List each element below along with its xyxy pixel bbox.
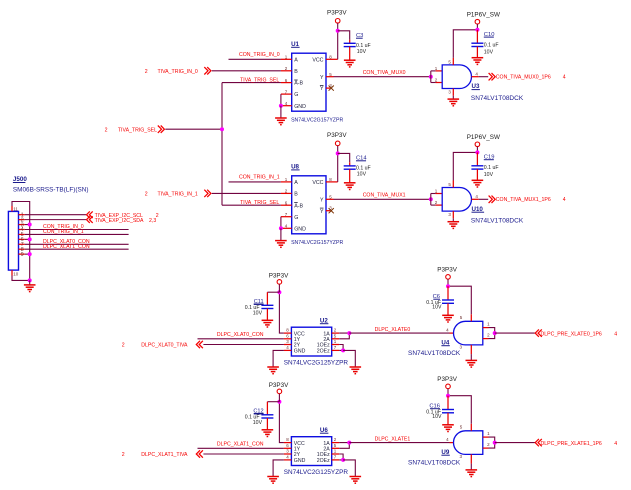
U1 pin 3 (Y-bar) no connect: [326, 87, 330, 89]
svg-text:DLPC_XLAT1_TIVA: DLPC_XLAT1_TIVA: [141, 452, 188, 458]
wire P1P6V_SW down: [476, 147, 478, 153]
junction: [279, 104, 283, 108]
svg-text:CON_TIVA_MUX1_1P6: CON_TIVA_MUX1_1P6: [496, 197, 551, 203]
junction: [475, 28, 479, 32]
svg-text:SN74LVC2G157YZPR: SN74LVC2G157YZPR: [291, 118, 343, 124]
svg-text:4: 4: [614, 441, 617, 447]
connector J500: [8, 211, 18, 270]
U8 pin 2 (B): [281, 192, 292, 194]
wire U8 G to GND: [280, 217, 282, 229]
U6 pin 3 (2Y): [284, 453, 292, 455]
power symbol P3P3V: [335, 19, 340, 24]
J500 pin 11: [11, 206, 13, 211]
svg-text:11: 11: [13, 206, 18, 211]
svg-text:P1P6V_SW: P1P6V_SW: [467, 134, 500, 141]
svg-text:DLPC_XLAT1_CON: DLPC_XLAT1_CON: [43, 244, 90, 250]
svg-text:Y: Y: [320, 197, 324, 203]
junction: [220, 127, 224, 131]
ground under C14: [344, 182, 356, 184]
junction: [28, 223, 32, 227]
ground under U1: [275, 117, 287, 119]
power symbol P3P3V: [335, 141, 340, 146]
wire TIVA_TRIG_SEL to U8 pin 6: [222, 204, 281, 206]
capacitor C14: [344, 165, 356, 167]
wire C16 to ground: [447, 413, 449, 425]
wire U9 output to off-page: [495, 442, 535, 444]
ground under C3: [344, 59, 356, 61]
J500 pin 10: [11, 270, 13, 275]
no-connect X: [329, 208, 334, 213]
wire U8 GND to ground: [280, 228, 282, 240]
wire J500 pin 8 net DLPC_XLAT1_CON: [25, 248, 129, 250]
svg-text:G: G: [294, 92, 298, 98]
U3 pin 2: [436, 82, 443, 84]
wire TIVA_TRIG_SEL vertical bus: [221, 83, 223, 206]
svg-text:SN74LV1T08DCK: SN74LV1T08DCK: [471, 218, 524, 225]
wire U3 output: [479, 76, 489, 78]
wire to capacitor C10: [476, 30, 478, 43]
U1 pin 7 (G): [281, 93, 292, 95]
off-page connector TIVA_EXP_I2C_SCL: [87, 211, 93, 218]
U9 pin 4 (output): [450, 442, 454, 444]
U4 pin 2: [483, 338, 489, 340]
wire J500 pin 2 to off-page: [25, 219, 86, 221]
svg-text:DLPC_PRE_XLATE1_1P6: DLPC_PRE_XLATE1_1P6: [541, 441, 602, 447]
junction: [28, 252, 32, 256]
wire U9 pins 1,2 tie: [489, 437, 495, 448]
junction: [277, 400, 281, 404]
wire P3P3V down: [447, 279, 449, 286]
svg-text:DLPC_XLATE1: DLPC_XLATE1: [375, 437, 411, 443]
ground under C6: [442, 314, 454, 316]
J500 pin 1: [19, 214, 25, 216]
junction: [446, 284, 450, 288]
buffer U2: [291, 327, 331, 356]
svg-text:A: A: [294, 57, 298, 63]
svg-text:CON_TRIG_IN_1: CON_TRIG_IN_1: [239, 174, 280, 180]
U2 pin 5 (2A): [332, 338, 340, 340]
U8 pin 1 (A): [281, 181, 292, 183]
wire to capacitor C19: [476, 152, 478, 165]
off-page connector CON_TIVA_MUX1_1P6: [489, 196, 496, 203]
wire J500 pin 5 net CON_TRIG_IN_1: [25, 233, 129, 235]
wire C14 to ground: [349, 169, 351, 183]
svg-text:DLPC_XLAT0_TIVA: DLPC_XLAT0_TIVA: [141, 343, 188, 349]
U1 pin 2 (B): [281, 70, 292, 72]
U6 pin 5 (2A): [332, 447, 340, 449]
J500 pin 8: [19, 248, 25, 250]
ground under J500: [24, 284, 36, 286]
AND gate U10: [442, 188, 471, 212]
svg-text:SN74LV1T08DCK: SN74LV1T08DCK: [471, 95, 524, 102]
svg-text:P1P6V_SW: P1P6V_SW: [467, 11, 500, 18]
U4 pin 1: [483, 327, 489, 329]
wire P3P3V to U2 VCC: [279, 292, 284, 333]
J500 pin 5: [19, 233, 25, 235]
wire J500 pin 9 to ground bus: [25, 253, 30, 255]
no-connect X: [329, 86, 334, 91]
svg-text:TIVA_TRIG_SEL: TIVA_TRIG_SEL: [118, 127, 157, 133]
svg-text:TIVA_TRIG_SEL: TIVA_TRIG_SEL: [240, 77, 279, 83]
svg-text:4: 4: [563, 197, 566, 203]
svg-text:A-B: A-B: [294, 203, 303, 209]
wire P3P3V down: [278, 394, 280, 402]
U3 pin 4 (output): [472, 76, 479, 78]
wire DLPC_XLATE0: [349, 332, 449, 334]
U6 pin 4 (GND): [284, 459, 292, 461]
wire U10 pin 3 to ground: [452, 218, 454, 221]
power symbol P3P3V: [277, 280, 282, 285]
junction: [28, 237, 32, 241]
off-page connector DLPC_PRE_XLATE1_1P6: [535, 439, 542, 446]
junction: [493, 331, 497, 335]
mux U8: [292, 176, 326, 234]
U2 pin 2 (1A): [332, 332, 340, 334]
U4 pin 5 (VCC): [470, 314, 472, 321]
ground under C11: [262, 319, 274, 321]
svg-text:CON_TIVA_MUX1: CON_TIVA_MUX1: [363, 193, 406, 199]
U9 pin 3 (GND): [470, 454, 472, 463]
svg-text:Y: Y: [320, 86, 324, 92]
svg-text:TIVA_EXP_I2C_SDA: TIVA_EXP_I2C_SDA: [95, 218, 144, 224]
wire OEz to ground: [343, 350, 355, 367]
wire to U3 pins 1,2: [430, 71, 432, 83]
off-page connector DLPC_PRE_XLATE0_1P6: [535, 329, 542, 336]
wire CON_TIVA_MUX1 from U8 Y to gate: [334, 198, 431, 200]
U6 pin 1 (1OEz): [332, 453, 340, 455]
svg-text:10V: 10V: [357, 172, 367, 178]
ground under U4: [466, 359, 478, 361]
svg-text:SN74LVC2G125YZPR: SN74LVC2G125YZPR: [284, 360, 349, 367]
wire J500 pin 3 to ground bus: [25, 224, 30, 226]
wire to capacitor C3: [338, 31, 350, 40]
wire U6 1OEz to 2OEz: [339, 454, 343, 460]
wire DLPC_XLAT1_CON to U6 1Y: [198, 447, 284, 449]
wire U10 output: [479, 198, 489, 200]
U1 pin 4 (GND): [281, 105, 292, 107]
wire pin 10 to bus: [12, 276, 30, 281]
U10 pin 1: [436, 193, 443, 195]
wire U4 pin 3 to ground: [470, 354, 472, 360]
U9 pin 5 (VCC): [470, 424, 472, 431]
U8 pin 6 (A/B select): [281, 204, 292, 206]
svg-text:Y: Y: [320, 209, 324, 215]
wire U2 GND to ground: [273, 350, 284, 367]
wire P1P6V_SW to U3 pin 5: [453, 30, 477, 58]
wire to capacitor C14: [338, 153, 350, 162]
svg-text:P3P3V: P3P3V: [269, 382, 289, 389]
ground under U9: [466, 469, 478, 471]
capacitor C6: [442, 299, 454, 301]
wire P1P6V_SW down: [476, 24, 478, 30]
wire U4 pins 1,2 tie: [489, 328, 495, 339]
junction: [493, 441, 497, 445]
U8 pin 5 (Y): [326, 198, 334, 200]
off-page connector CON_TIVA_MUX0_1P6: [489, 73, 496, 80]
wire C10 to ground: [476, 47, 478, 58]
off-page connector TIVA_EXP_I2C_SDA: [87, 216, 93, 223]
ground under C19: [472, 179, 484, 181]
U8 pin 7 (G): [281, 216, 292, 218]
svg-text:SN74LV1T08DCK: SN74LV1T08DCK: [408, 460, 461, 467]
junction: [279, 226, 283, 230]
wire DLPC_XLAT0_TIVA to U2 2Y: [203, 344, 284, 346]
ground under U2: [267, 366, 279, 368]
U2 pin 4 (GND): [284, 349, 292, 351]
U10 pin 2: [436, 204, 443, 206]
U10 pin 3 (GND): [452, 211, 454, 218]
svg-text:A-B: A-B: [294, 81, 303, 87]
svg-text:4: 4: [614, 331, 617, 337]
wire U3 pin 3 to ground: [452, 96, 454, 99]
wire C12 to ground: [266, 418, 268, 430]
J500 pin 7: [19, 243, 25, 245]
svg-text:P3P3V: P3P3V: [437, 376, 457, 383]
U3 pin 1: [436, 70, 443, 72]
svg-text:GND: GND: [294, 104, 306, 110]
wire P3P3V to U8 VCC: [337, 146, 339, 182]
power symbol P3P3V: [446, 384, 451, 389]
svg-text:DLPC_XLAT1_CON: DLPC_XLAT1_CON: [217, 442, 264, 448]
wire TIVA_TRIG_IN_1 to U8 pin B: [212, 192, 281, 194]
mux U1: [292, 53, 326, 111]
U8 pin 4 (GND): [281, 227, 292, 229]
wire to capacitor C6: [447, 286, 449, 300]
U10 pin 4 (output): [472, 198, 479, 200]
svg-text:B: B: [294, 192, 298, 198]
wire U4 output to off-page: [495, 332, 535, 334]
junction: [347, 441, 351, 445]
U4 pin 4 (output): [450, 332, 454, 334]
svg-text:SN74LVC2G157YZPR: SN74LVC2G157YZPR: [291, 240, 343, 246]
U8 pin 8 (VCC): [326, 181, 338, 183]
svg-text:10V: 10V: [484, 172, 494, 178]
wire OEz to ground: [343, 460, 355, 477]
svg-text:CON_TRIG_IN_1: CON_TRIG_IN_1: [43, 229, 84, 235]
junction: [446, 394, 450, 398]
ground under U6: [267, 476, 279, 478]
U1 pin 1 (A): [281, 58, 292, 60]
U6 pin 2 (1A): [332, 442, 340, 444]
wire J500 pin 6 to ground bus: [25, 238, 30, 240]
wire P3P3V to U1 VCC: [337, 23, 339, 59]
junction: [336, 29, 340, 33]
ground under U3: [448, 98, 460, 100]
U1 pin 5 (Y): [326, 76, 334, 78]
capacitor C16: [442, 409, 454, 411]
wire U6 GND to ground: [273, 460, 284, 477]
svg-text:2: 2: [145, 69, 148, 75]
junction: [341, 348, 345, 352]
junction: [336, 151, 340, 155]
ground under C16: [442, 424, 454, 426]
junction: [347, 331, 351, 335]
svg-text:10V: 10V: [357, 49, 367, 55]
svg-text:10V: 10V: [484, 49, 494, 55]
wire to capacitor C16: [447, 396, 449, 410]
svg-text:VCC: VCC: [312, 180, 323, 186]
svg-text:2OEz: 2OEz: [317, 458, 330, 464]
svg-text:G: G: [294, 215, 298, 221]
svg-text:DLPC_XLATE0: DLPC_XLATE0: [375, 327, 411, 333]
svg-text:0.1 uF: 0.1 uF: [484, 165, 499, 171]
wire U1 G to GND: [280, 94, 282, 106]
wire P3P3V to U9 pin 5: [448, 396, 471, 424]
wire DLPC_XLAT0_CON to U2 1Y: [198, 338, 284, 340]
svg-text:DLPC_XLAT0_CON: DLPC_XLAT0_CON: [217, 332, 264, 338]
wire P3P3V to U6 VCC: [279, 402, 284, 443]
svg-text:A: A: [294, 180, 298, 186]
wire TIVA_TRIG_SEL horizontal: [165, 128, 222, 130]
wire to capacitor C11: [267, 291, 279, 293]
wire U2 1A to 2A: [339, 333, 349, 339]
wire U9 pin 3 to ground: [470, 464, 472, 470]
svg-text:P3P3V: P3P3V: [327, 132, 347, 139]
buffer U6: [291, 437, 331, 466]
svg-text:2: 2: [122, 452, 125, 458]
U4 pin 3 (GND): [470, 345, 472, 354]
wire P1P6V_SW to U10 pin 5: [453, 152, 477, 180]
capacitor C12: [261, 414, 273, 416]
U3 pin 3 (GND): [452, 89, 454, 96]
J500 pin 6: [19, 238, 25, 240]
U2 pin 1 (1OEz): [332, 344, 340, 346]
svg-text:DLPC_PRE_XLATE0_1P6: DLPC_PRE_XLATE0_1P6: [541, 331, 602, 337]
ground under U8: [275, 240, 287, 242]
capacitor C3: [344, 42, 356, 44]
svg-text:SM06B-SRSS-TB(LF)(SN): SM06B-SRSS-TB(LF)(SN): [13, 187, 89, 194]
junction at U3 inputs: [429, 75, 433, 79]
junction: [277, 290, 281, 294]
svg-text:SN74LV1T08DCK: SN74LV1T08DCK: [408, 350, 461, 357]
U6 pin 6 (1Y): [284, 447, 292, 449]
junction at U10 inputs: [429, 197, 433, 201]
wire TIVA_TRIG_IN_0 to U1 pin B: [212, 70, 281, 72]
ground under C12: [262, 429, 274, 431]
wire pin 11 to bus: [12, 202, 30, 281]
capacitor C11: [261, 304, 273, 306]
svg-text:GND: GND: [294, 349, 306, 355]
J500 pin 3: [19, 224, 25, 226]
wire DLPC_XLAT1_TIVA to U6 2Y: [203, 453, 284, 455]
svg-text:10: 10: [13, 272, 19, 277]
wire C19 to ground: [476, 169, 478, 180]
power symbol P1P6V_SW: [475, 142, 480, 147]
svg-text:2: 2: [105, 127, 108, 133]
AND gate U3: [442, 65, 471, 89]
svg-text:GND: GND: [294, 226, 306, 232]
wire J500 pin 1 to off-page: [25, 214, 86, 216]
svg-text:CON_TIVA_MUX0: CON_TIVA_MUX0: [363, 70, 406, 76]
power symbol P3P3V: [277, 389, 282, 394]
U9 pin 2: [483, 447, 489, 449]
svg-text:GND: GND: [294, 458, 306, 464]
svg-text:TIVA_TRIG_IN_0: TIVA_TRIG_IN_0: [158, 69, 198, 75]
U3 pin 5 (VCC): [452, 58, 454, 65]
svg-text:2,3: 2,3: [149, 218, 156, 224]
J500 pin 2: [19, 219, 25, 221]
svg-text:10V: 10V: [253, 420, 263, 426]
U1 pin 8 (VCC): [326, 58, 338, 60]
U1 pin 6 (A/B select): [281, 82, 292, 84]
svg-text:Y: Y: [320, 75, 324, 81]
junction: [475, 150, 479, 154]
wire U1 GND to ground: [280, 106, 282, 118]
U2 pin 6 (1Y): [284, 338, 292, 340]
junction: [341, 458, 345, 462]
wire P3P3V down: [447, 389, 449, 396]
svg-text:B: B: [294, 69, 298, 75]
ground under C10: [472, 57, 484, 59]
U6 pin 8 (VCC): [284, 442, 292, 444]
svg-text:10V: 10V: [432, 414, 442, 420]
AND gate U4: [454, 321, 483, 345]
svg-text:P3P3V: P3P3V: [437, 267, 457, 274]
svg-text:VCC: VCC: [312, 57, 323, 63]
svg-text:CON_TIVA_MUX0_1P6: CON_TIVA_MUX0_1P6: [496, 74, 551, 80]
ground under U2 OEz: [350, 366, 362, 368]
wire P3P3V down: [278, 284, 280, 292]
capacitor C10: [471, 42, 483, 44]
svg-text:SN74LVC2G125YZPR: SN74LVC2G125YZPR: [284, 469, 349, 476]
wire C11 to ground: [266, 309, 268, 321]
capacitor C19: [471, 165, 483, 167]
J500 pin 4: [19, 228, 25, 230]
wire CON_TIVA_MUX0 from U1 Y to gate: [334, 76, 431, 78]
wire TIVA_TRIG_SEL to U1 pin 6: [222, 82, 281, 84]
svg-text:P3P3V: P3P3V: [269, 272, 289, 279]
svg-text:P3P3V: P3P3V: [327, 10, 347, 17]
wire CON_TRIG_IN_1 to U8 pin A: [229, 181, 281, 183]
svg-text:2OEz: 2OEz: [317, 349, 330, 355]
wire U6 1A to 2A: [339, 443, 349, 449]
wire C6 to ground: [447, 303, 449, 315]
wire U2 1OEz to 2OEz: [339, 345, 343, 351]
wire to capacitor C12: [267, 401, 279, 403]
U2 pin 3 (2Y): [284, 344, 292, 346]
AND gate U9: [454, 431, 483, 455]
wire DLPC_XLATE1: [349, 442, 449, 444]
svg-text:TIVA_TRIG_IN_1: TIVA_TRIG_IN_1: [158, 192, 198, 198]
power symbol P3P3V: [446, 275, 451, 280]
power symbol P1P6V_SW: [475, 19, 480, 24]
U6 pin 7 (2OEz): [332, 459, 340, 461]
wire CON_TRIG_IN_0 to U1 pin A: [229, 58, 281, 60]
svg-text:10V: 10V: [432, 304, 442, 310]
wire to U10 pins 1,2: [430, 194, 432, 206]
svg-text:0.1 uF: 0.1 uF: [484, 43, 499, 49]
svg-text:10V: 10V: [253, 311, 263, 317]
wire J500 pin 4 net CON_TRIG_IN_0: [25, 228, 129, 230]
J500 pin 9: [19, 253, 25, 255]
wire bus to ground: [29, 280, 31, 285]
wire J500 pin 7 net DLPC_XLAT0_CON: [25, 243, 129, 245]
U10 pin 5 (VCC): [452, 181, 454, 188]
wire C3 to ground: [349, 47, 351, 61]
U8 pin 3 (Y-bar) no connect: [326, 210, 330, 212]
svg-text:4: 4: [563, 75, 566, 81]
ground under U6 OEz: [350, 476, 362, 478]
wire P3P3V to U4 pin 5: [448, 286, 471, 314]
ground under U10: [448, 221, 460, 223]
U9 pin 1: [483, 436, 489, 438]
svg-text:2: 2: [122, 343, 125, 349]
svg-text:TIVA_TRIG_SEL: TIVA_TRIG_SEL: [240, 200, 279, 206]
U2 pin 8 (VCC): [284, 332, 292, 334]
svg-text:9: 9: [21, 252, 24, 258]
svg-text:2: 2: [145, 192, 148, 198]
U2 pin 7 (2OEz): [332, 349, 340, 351]
